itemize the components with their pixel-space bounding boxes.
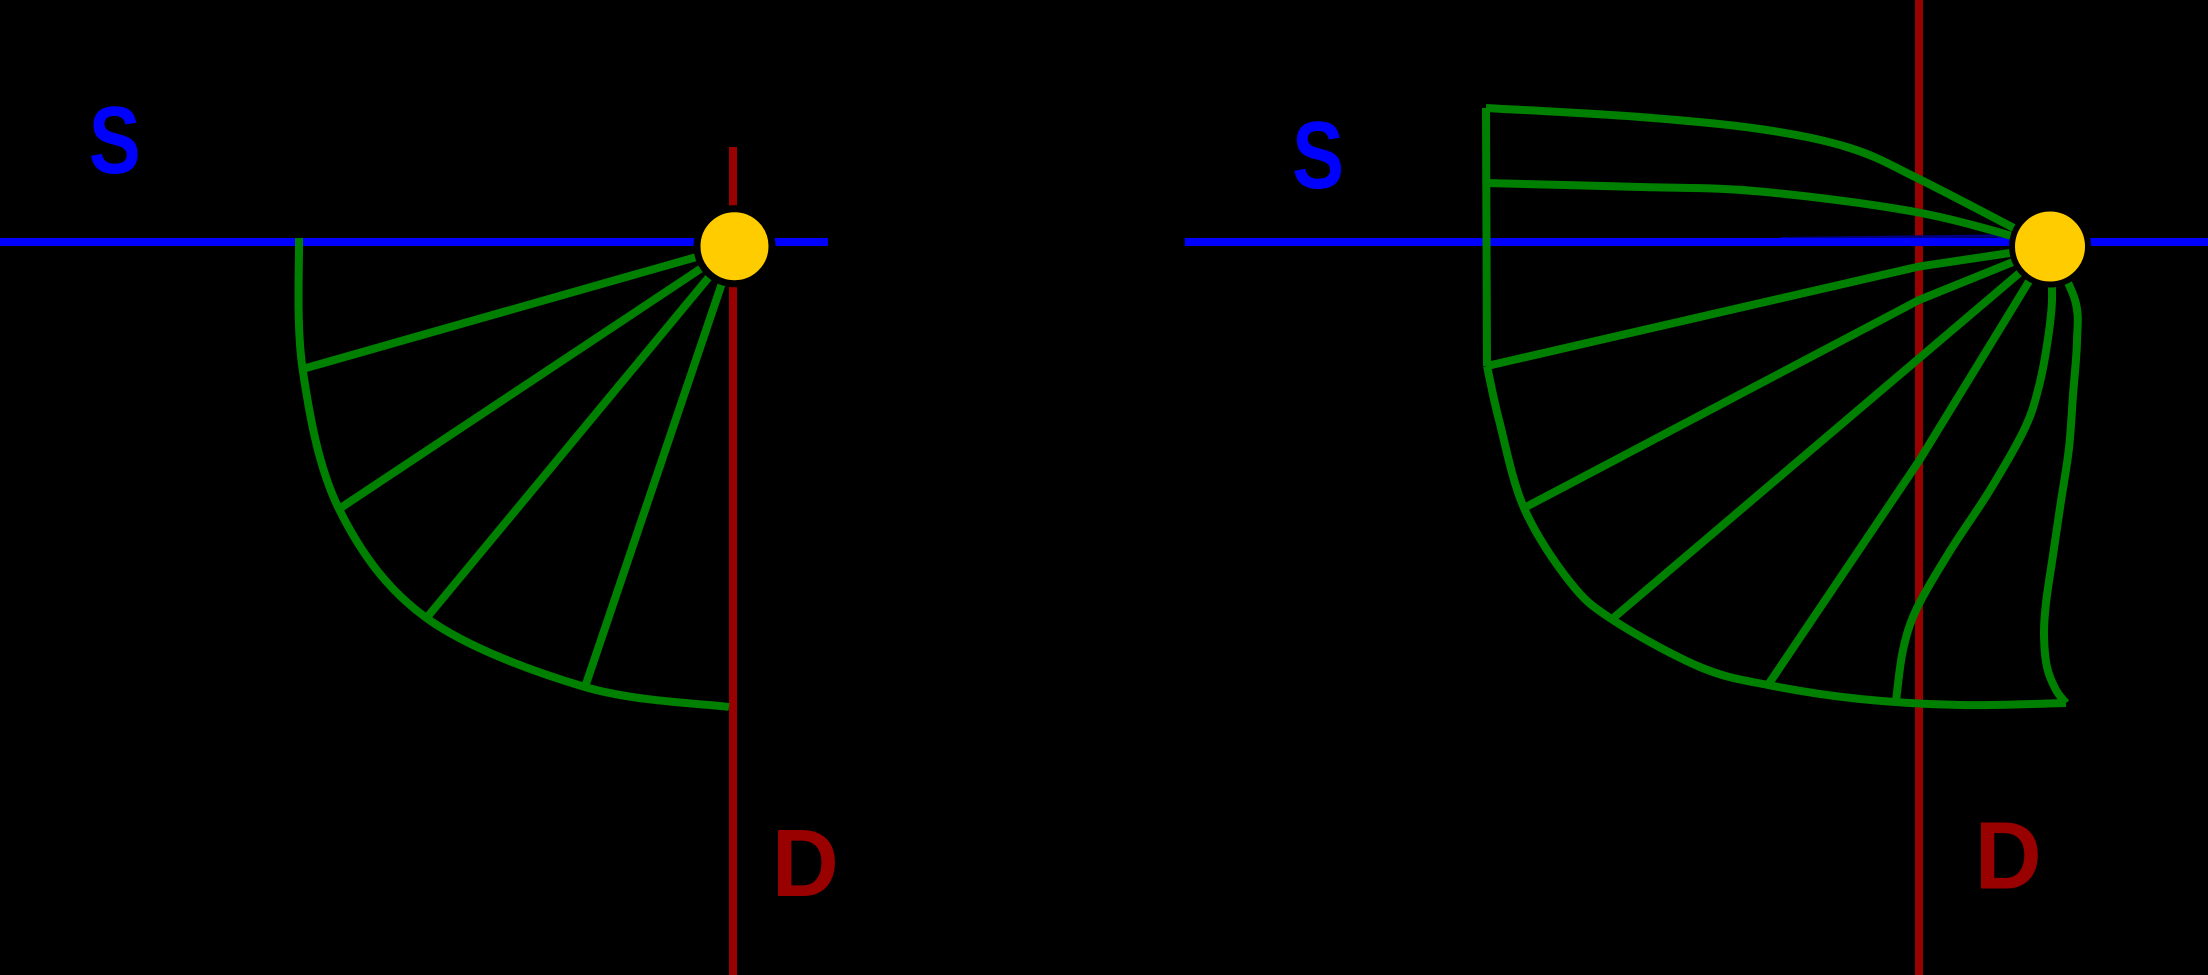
ray 4 (left, 71deg) (585, 246, 735, 687)
svg-text:D: D (772, 810, 839, 917)
ray D1 (right, refracted at D) (1487, 247, 2050, 366)
svg-text:D: D (1975, 802, 2042, 909)
ray D3 (right) (1611, 247, 2050, 620)
ray 1 (left, 16deg) (303, 246, 735, 369)
ray U2 (right, above surface) (1486, 183, 2050, 247)
hidden navy surface ray (right) (1780, 236, 2014, 242)
svg-text:S: S (1292, 102, 1344, 208)
discontinuity line D (right) (1915, 0, 1923, 975)
ray D5 (right, curved) (1896, 247, 2052, 701)
ray 3 (left, 51deg) (427, 246, 735, 618)
right edge of wavefront (right) (2044, 247, 2078, 703)
ray D4 (right, refracted at D) (1768, 247, 2050, 685)
surface line S (left) (0, 238, 828, 246)
wavefront arc (right) (1487, 366, 2066, 705)
svg-text:S: S (89, 87, 141, 193)
wavefront arc (left) (299, 238, 729, 707)
ray D2 (right, refracted at D) (1524, 247, 2050, 508)
ray U1 (right, above surface) (1486, 108, 2050, 247)
wavefront left vertical edge (right) (1486, 108, 1487, 366)
discontinuity line D (left) (729, 147, 737, 975)
source dot (right) (2012, 209, 2088, 285)
ray 2 (left, 34deg) (339, 246, 735, 509)
source dot (left) (697, 209, 772, 284)
surface line S (right) (1185, 238, 2208, 246)
